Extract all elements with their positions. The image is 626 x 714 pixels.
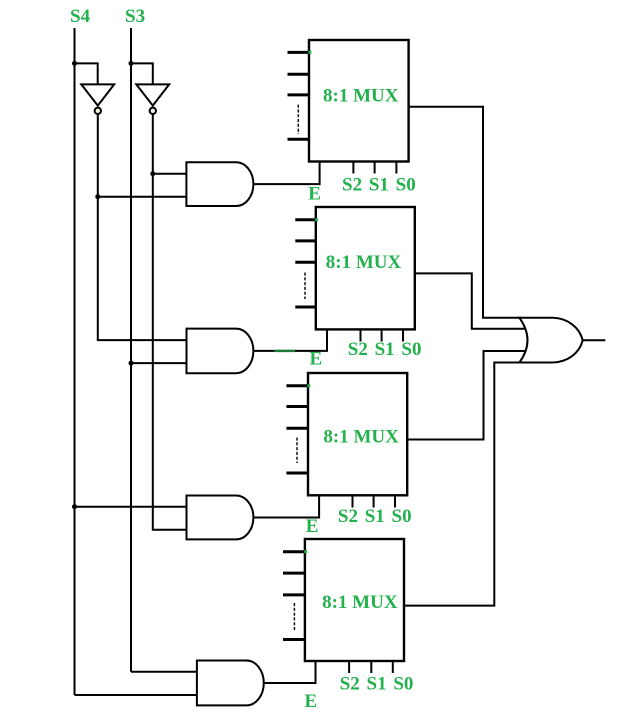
wire OR output	[583, 339, 606, 341]
svg-text:E: E	[308, 184, 321, 205]
wire S3 to AND4 top input	[131, 671, 197, 673]
node junction S3 to AND2	[129, 361, 134, 366]
mux U4 input stubs	[283, 550, 305, 553]
wire U2 output	[415, 273, 527, 328]
mux U1 box 8:1 MUX	[309, 40, 409, 162]
node junction S4' to AND1	[95, 194, 100, 199]
svg-text:S2 S1 S0: S2 S1 S0	[340, 674, 414, 695]
node green speck U3 stub	[307, 384, 310, 387]
wire S3 branch to inverter	[131, 63, 153, 84]
svg-text:S2 S1 S0: S2 S1 S0	[338, 506, 412, 527]
svg-text:S2 S1 S0: S2 S1 S0	[342, 174, 416, 195]
wire U4 output	[404, 363, 521, 606]
wire S4' vertical from inverter to AND2 top input	[98, 114, 187, 340]
wire AND3 top input from S4	[75, 506, 187, 508]
node green speck U1 stub	[308, 51, 311, 54]
mux U2 box 8:1 MUX	[316, 207, 415, 329]
AND gate A4	[197, 661, 264, 706]
mux U3 input stubs	[286, 384, 308, 387]
mux U2 select pins	[360, 329, 362, 341]
mux U4 select pins	[348, 661, 350, 673]
svg-text:8:1 MUX: 8:1 MUX	[322, 592, 398, 613]
svg-text:8:1 MUX: 8:1 MUX	[323, 86, 399, 107]
wire S4 to AND4 bottom input	[75, 694, 197, 696]
mux U1 select pins	[352, 162, 354, 174]
wire AND1 bottom input from S4'	[98, 196, 187, 198]
AND gate A1	[186, 162, 253, 206]
mux U3 dashed ellipsis	[296, 438, 298, 464]
wire U1 output	[409, 107, 521, 318]
OR gate G1	[519, 318, 582, 363]
node junction S4 to AND3	[72, 504, 77, 509]
mux U3 box 8:1 MUX	[308, 373, 407, 495]
svg-text:E: E	[310, 348, 323, 369]
wire S4 vertical line	[74, 28, 76, 695]
wire AND4 output to MUX4 E pin	[263, 661, 316, 683]
node green speck U2 stub	[315, 218, 318, 221]
svg-text:S4: S4	[70, 6, 91, 27]
svg-text:E: E	[306, 516, 319, 537]
mux U1 input stubs	[288, 51, 310, 54]
wire S4 branch to inverter	[75, 63, 98, 84]
mux U2 dashed ellipsis	[304, 273, 306, 300]
wire AND2 bottom input from S3	[131, 362, 187, 364]
wire S3' vertical from inverter to AND3 bottom input	[153, 114, 187, 530]
svg-text:8:1 MUX: 8:1 MUX	[326, 252, 402, 273]
wire green segment on AND2 E wire	[274, 350, 295, 352]
inverter NOT2 (S3')	[136, 84, 169, 105]
AND gate A3	[187, 496, 254, 540]
node S3 branch junction	[129, 61, 134, 66]
mux U4 box 8:1 MUX	[305, 539, 404, 661]
inverter NOT1 (S4')	[81, 84, 114, 105]
wire AND2 output to MUX2 E pin	[253, 329, 327, 351]
AND gate A2	[187, 329, 254, 374]
svg-text:8:1 MUX: 8:1 MUX	[323, 427, 399, 448]
node green speck U4 stub	[304, 550, 307, 553]
mux U2 input stubs	[295, 218, 316, 221]
wire AND1 output to MUX1 E pin	[253, 162, 320, 185]
node S4 branch junction	[72, 61, 77, 66]
node junction S3' to AND1	[150, 171, 155, 176]
wire AND1 top input from S3'	[153, 173, 187, 175]
svg-text:S2 S1 S0: S2 S1 S0	[348, 339, 422, 360]
mux U1 dashed ellipsis	[297, 105, 299, 134]
mux U4 dashed ellipsis	[293, 603, 295, 630]
svg-text:S3: S3	[125, 6, 145, 27]
wire S3 vertical line	[130, 28, 132, 672]
wire AND3 output to MUX3 E pin	[253, 496, 319, 518]
svg-text:E: E	[305, 691, 318, 712]
mux U3 select pins	[352, 495, 354, 507]
wire U3 output	[407, 351, 526, 440]
